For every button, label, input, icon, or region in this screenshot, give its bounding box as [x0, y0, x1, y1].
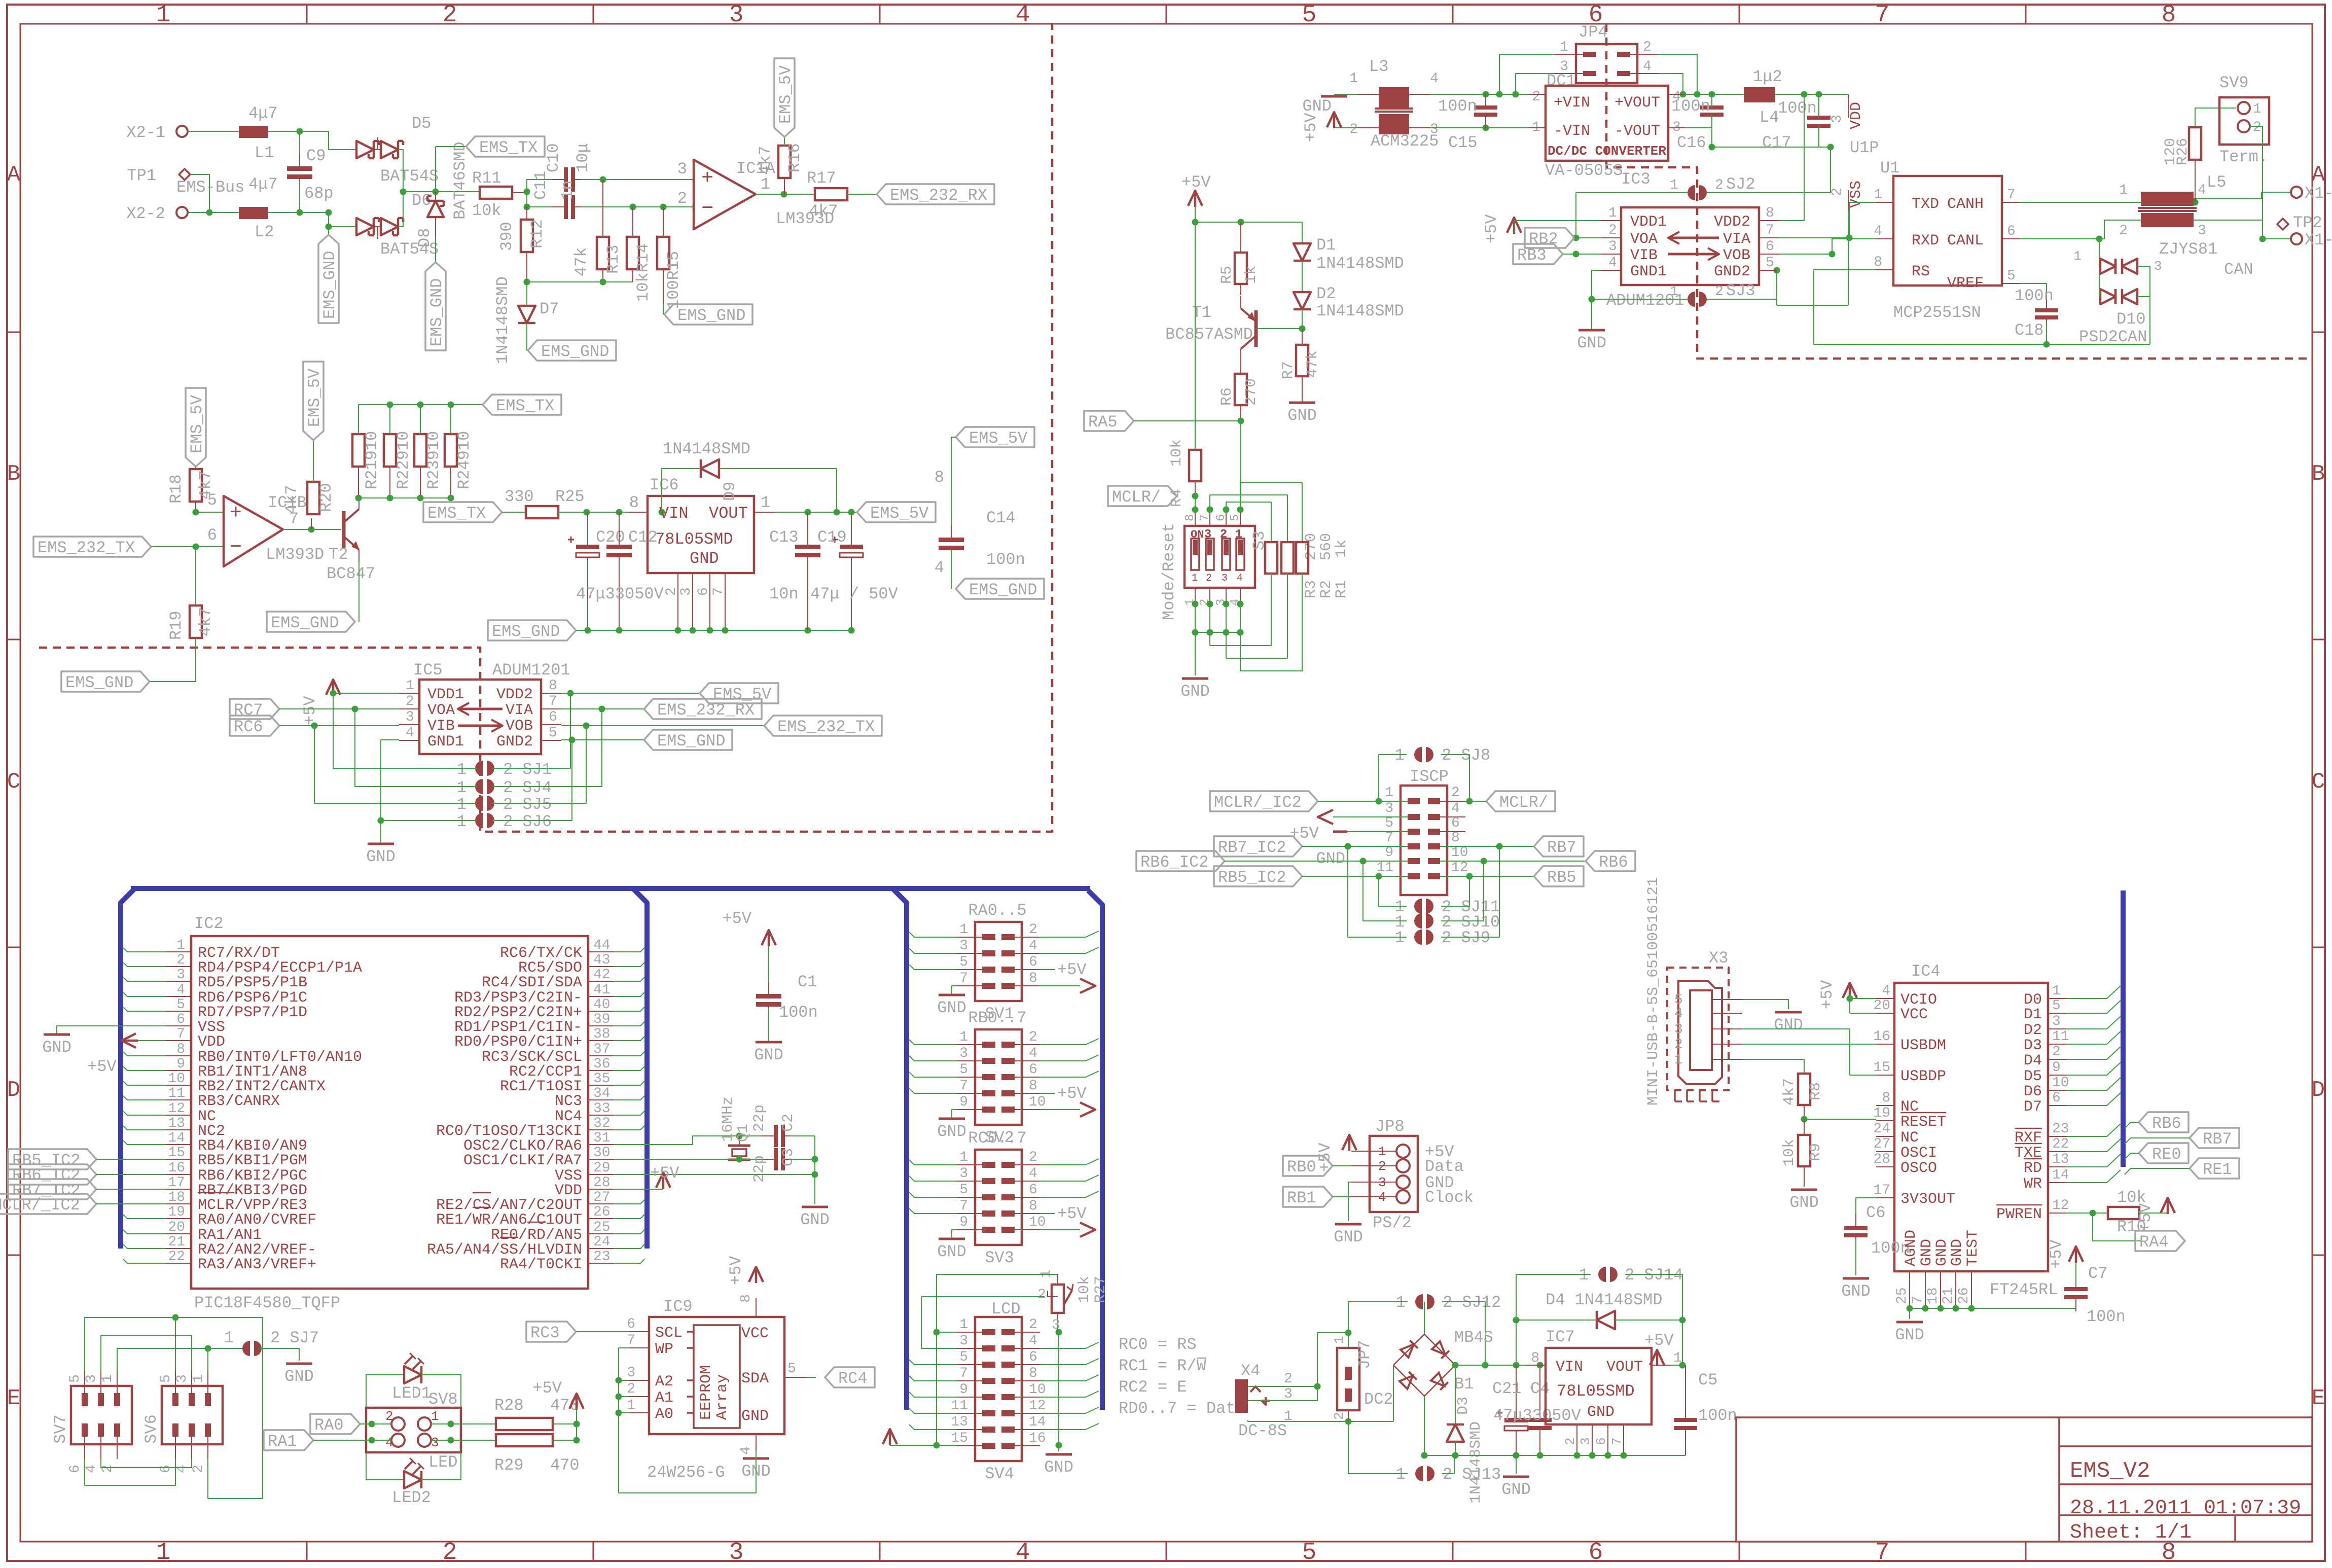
- svg-text:RB7: RB7: [2203, 1130, 2232, 1149]
- svg-text:7: 7: [959, 971, 968, 986]
- svg-text:330: 330: [505, 487, 534, 506]
- label flag MCLR/: [1108, 486, 1177, 506]
- svg-text:RD0/PSP0/C1IN+: RD0/PSP0/C1IN+: [454, 1034, 582, 1051]
- dc jack X4 DC-8S: [1235, 1379, 1248, 1413]
- svg-text:GND: GND: [42, 1038, 71, 1057]
- IC4 pin 17 3V3OUT: [1876, 1197, 1894, 1198]
- svg-text:7: 7: [1609, 1437, 1625, 1445]
- svg-text:35: 35: [593, 1071, 611, 1087]
- svg-text:EMS_TX: EMS_TX: [496, 397, 554, 415]
- svg-text:1: 1: [2073, 248, 2082, 264]
- svg-text:A1: A1: [655, 1389, 673, 1407]
- wire SJ8 pad2 down to pin2 net: [1441, 755, 1469, 801]
- svg-text:GND: GND: [1587, 1404, 1615, 1421]
- svg-text:GND1: GND1: [427, 733, 464, 751]
- ground at SV4 pin16: [1058, 1445, 1059, 1451]
- svg-text:IC3: IC3: [1621, 170, 1651, 189]
- svg-text:R9: R9: [1807, 1143, 1824, 1161]
- wire SJ14 pads: [1516, 1274, 1591, 1320]
- svg-text:6: 6: [158, 1465, 174, 1473]
- capacitor C2 22p: [762, 1135, 774, 1136]
- svg-text:3: 3: [627, 1365, 635, 1381]
- wire usb pin3 to USBDP: [1742, 1029, 1876, 1075]
- CAN transceiver U1 MCP2551SN: [1893, 176, 2002, 286]
- svg-text:6: 6: [67, 1465, 83, 1473]
- svg-text:3: 3: [729, 2, 744, 29]
- svg-text:RS: RS: [1912, 263, 1930, 280]
- svg-text:1: 1: [1608, 205, 1617, 221]
- svg-text:17: 17: [168, 1175, 185, 1191]
- LED1: [366, 1375, 404, 1408]
- svg-text:SV4: SV4: [985, 1465, 1014, 1483]
- diode D6 BAT54S dual schottky: [356, 218, 374, 235]
- svg-text:7: 7: [959, 1078, 968, 1094]
- wire +5V node down: [1682, 1320, 1683, 1365]
- svg-text:-VOUT: -VOUT: [1615, 123, 1660, 140]
- svg-text:WR: WR: [2024, 1175, 2042, 1193]
- svg-text:RB6: RB6: [1599, 853, 1628, 872]
- svg-text:EMS_232_RX: EMS_232_RX: [657, 701, 755, 720]
- svg-text:X4: X4: [1241, 1362, 1260, 1380]
- connector JP8 PS/2: [1370, 1136, 1418, 1212]
- op-amp IC1B LM393D: [224, 496, 283, 566]
- capacitor C4 330n: [1539, 1365, 1540, 1413]
- svg-text:4: 4: [738, 1446, 754, 1455]
- wire D5 output down to junction: [398, 150, 403, 192]
- svg-text:10: 10: [1029, 1382, 1046, 1398]
- wire SJ13 pad2: [1442, 1455, 1454, 1474]
- svg-text:5: 5: [2007, 268, 2016, 284]
- svg-text:1: 1: [2119, 183, 2128, 198]
- svg-text:10k: 10k: [472, 201, 501, 220]
- svg-text:2: 2: [1674, 1037, 1683, 1053]
- svg-text:3: 3: [959, 938, 968, 954]
- svg-text:100n: 100n: [2015, 287, 2054, 305]
- wire resistor bottom rail: [527, 281, 633, 282]
- svg-text:6: 6: [1029, 1182, 1037, 1198]
- wire X2-1 to L1: [188, 131, 239, 132]
- wire L2 to node: [268, 212, 329, 213]
- capacitor C7 100n: [2075, 1302, 2076, 1308]
- crystal circuit: wire OSC2 pin31 to C2 row: [614, 1136, 768, 1145]
- svg-text:2: 2: [1608, 223, 1617, 238]
- svg-text:2 SJ5: 2 SJ5: [503, 795, 552, 814]
- label flag EMS_5V above R16: [784, 137, 785, 146]
- svg-text:10n: 10n: [769, 585, 799, 603]
- svg-text:2: 2: [1532, 89, 1540, 105]
- isolation dashed boundary CAN region: [1606, 24, 2312, 359]
- svg-text:1: 1: [2052, 983, 2061, 999]
- svg-text:3V3OUT: 3V3OUT: [1900, 1191, 1955, 1208]
- power +5V at JP8 pin1: [1342, 1135, 1356, 1150]
- connector SV9 Term: [2219, 97, 2269, 145]
- svg-text:5: 5: [959, 954, 968, 970]
- op-amp IC1A LM393D: [694, 160, 756, 229]
- SV2 right wire: [1040, 1071, 1099, 1077]
- wire SJ3 right to GND2: [1706, 270, 1777, 299]
- resistor R21: [352, 434, 365, 467]
- IC2 pin 31 OSC2/CLKO/RA6: [588, 1144, 614, 1145]
- power +5V at IC4 VCIO: [1843, 983, 1857, 998]
- IC9 VCC pin8 to +5V: [756, 1298, 757, 1317]
- svg-text:5: 5: [176, 997, 185, 1013]
- svg-text:RB1: RB1: [1287, 1189, 1316, 1207]
- svg-text:3: 3: [959, 1333, 968, 1349]
- svg-text:6: 6: [1451, 815, 1460, 831]
- svg-text:R28: R28: [494, 1396, 524, 1415]
- svg-text:D: D: [2312, 1078, 2325, 1103]
- svg-text:+5V: +5V: [532, 1379, 562, 1398]
- svg-text:C12: C12: [628, 528, 658, 547]
- isolator ADUM1201 right instance: [1621, 207, 1759, 285]
- svg-text:100n: 100n: [779, 1003, 818, 1022]
- svg-text:5: 5: [959, 1182, 968, 1198]
- svg-text:LED1: LED1: [392, 1384, 431, 1403]
- svg-text:2 SJ9: 2 SJ9: [1442, 929, 1490, 947]
- IC2 pin 11 RB3/CANRX: [166, 1099, 191, 1100]
- svg-text:6: 6: [2007, 224, 2016, 239]
- svg-text:FT245RL: FT245RL: [1990, 1280, 2058, 1299]
- label flag EMS_232_RX at IC5: [644, 699, 762, 719]
- power +5V above T1 block: [1188, 191, 1202, 206]
- IC2 pin 39 RD1/PSP1/C1IN-: [588, 1025, 614, 1026]
- IC2 pin 14 RB4/KBI0/AN9: [166, 1144, 191, 1145]
- svg-text:6: 6: [1029, 1062, 1037, 1078]
- IC2 pin 30 OSC1/CLKI/RA7: [588, 1159, 614, 1160]
- svg-text:3: 3: [176, 967, 185, 983]
- wire IC6 VOUT to EMS_5V: [754, 512, 775, 513]
- svg-text:1: 1: [1396, 1293, 1406, 1312]
- svg-text:D2: D2: [2024, 1022, 2042, 1039]
- resistor R12: [526, 207, 527, 220]
- IC4 pin 4 VCIO: [1876, 998, 1894, 999]
- svg-text:RC6: RC6: [234, 718, 263, 736]
- connector pad X1-1: [2291, 187, 2302, 198]
- svg-text:2 SJ1: 2 SJ1: [503, 760, 552, 779]
- overline TXE on IC4: [2015, 1143, 2042, 1145]
- svg-text:R21910: R21910: [363, 431, 381, 489]
- IC2 pin 25 RE0/RD/AN5: [588, 1233, 614, 1234]
- svg-text:SJ3: SJ3: [1726, 281, 1755, 300]
- svg-text:EMS_5V: EMS_5V: [188, 395, 206, 453]
- wire RS to C18 rail: [1814, 270, 2150, 344]
- junction dots above S3: [1192, 507, 1199, 513]
- svg-text:5: 5: [158, 1374, 174, 1383]
- svg-text:R13: R13: [604, 244, 623, 274]
- svg-text:EMS_232_TX: EMS_232_TX: [38, 539, 135, 557]
- wire +5V to SJ1 pad1: [333, 693, 477, 768]
- svg-text:2: 2: [1715, 284, 1724, 300]
- IC4 pin 8 NC: [1876, 1105, 1894, 1106]
- svg-text:RB0..7: RB0..7: [968, 1009, 1026, 1027]
- wire IC2 right pin to bus: [614, 1259, 644, 1263]
- power pin U1P VSS: [1848, 190, 1849, 210]
- svg-text:1: 1: [457, 795, 467, 814]
- svg-text:4: 4: [1016, 2, 1030, 29]
- SV3 left wire: [909, 1176, 957, 1181]
- svg-text:2: 2: [1715, 177, 1724, 193]
- IC4 pin 22 TXE: [2048, 1151, 2066, 1152]
- wire IC2 right pin to bus: [614, 963, 644, 967]
- wire SJ2 left down to VOA net: [1576, 193, 1689, 238]
- IC2 pin 37 RC3/SCK/SCL: [588, 1055, 614, 1056]
- svg-text:5: 5: [549, 725, 557, 741]
- bus vertical for SV connectors left: [892, 888, 907, 1410]
- wire T2 collector to resistor rail: [358, 497, 360, 498]
- resistor R18: [195, 467, 196, 469]
- wire EMS_GND to SJ6 pad2: [492, 740, 572, 821]
- IC2 pin 8 RB0/INT0/LFT0/AN10: [166, 1055, 191, 1056]
- svg-text:GND: GND: [366, 847, 396, 866]
- svg-text:DC1: DC1: [1547, 72, 1576, 90]
- wire IC2 right pin to bus: [614, 992, 644, 996]
- svg-text:11: 11: [2052, 1029, 2069, 1045]
- wire SJ10 pads: [1363, 861, 1407, 921]
- svg-text:4: 4: [1643, 59, 1652, 75]
- wire T1 base to D2 R7 node: [1256, 328, 1302, 329]
- wire VOUT to +5V: [1671, 1365, 1685, 1366]
- wire GND1 to SJ6 pad1: [381, 820, 477, 821]
- svg-text:RB0: RB0: [1287, 1158, 1316, 1177]
- label flag EMS_GND below R15: [663, 304, 664, 314]
- svg-text:GND: GND: [937, 1122, 966, 1141]
- transistor T2 BC847: [342, 511, 346, 548]
- svg-text:X2-2: X2-2: [126, 204, 165, 223]
- svg-text:C5: C5: [1698, 1371, 1717, 1389]
- svg-text:+5V: +5V: [1057, 1204, 1087, 1223]
- wire IC2 left pin to bus: [123, 1066, 166, 1071]
- svg-text:EMS_GND: EMS_GND: [969, 581, 1037, 599]
- svg-text:5: 5: [1385, 815, 1393, 831]
- SV4 left wire: [909, 1360, 957, 1365]
- svg-text:+5V: +5V: [1057, 1084, 1087, 1103]
- ground symbol below IC5: [368, 843, 394, 845]
- label flag RA0: [310, 1414, 360, 1434]
- IC2 pin 1 RC7/RX/DT: [166, 951, 191, 952]
- svg-text:X1-1: X1-1: [2305, 184, 2332, 203]
- wire X4 to JP7 pin1: [1317, 1333, 1348, 1386]
- svg-text:DC-8S: DC-8S: [1238, 1421, 1287, 1440]
- svg-text:6: 6: [1214, 514, 1228, 521]
- wires SV6 SV7 loops top: [85, 1317, 175, 1371]
- svg-text:SV6: SV6: [142, 1414, 161, 1444]
- label flag RA5: [1084, 411, 1134, 431]
- IC9 pin 7 WP: [629, 1347, 649, 1348]
- wire TXD to VIA: [1849, 202, 1876, 238]
- wire GND2 pin5: [1759, 270, 1777, 271]
- svg-text:RB7_IC2: RB7_IC2: [1218, 838, 1286, 857]
- IC4 pin 25 AGND: [1909, 1271, 1910, 1308]
- svg-text:2: 2: [1029, 1317, 1037, 1333]
- svg-text:C4: C4: [1530, 1379, 1550, 1398]
- svg-text:9: 9: [959, 1382, 968, 1398]
- wire R8 R9 node to RESET: [1804, 1119, 1876, 1120]
- resistor R5 1k: [1240, 222, 1241, 253]
- svg-text:3: 3: [678, 587, 694, 596]
- svg-text:U1P: U1P: [1850, 138, 1879, 157]
- svg-text:R7: R7: [1280, 361, 1297, 379]
- svg-text:3: 3: [677, 160, 687, 179]
- svg-text:B: B: [7, 461, 20, 487]
- wire R27 wiper to SV4 row3: [1048, 1291, 1058, 1297]
- IC2 pin 13 NC2: [166, 1129, 191, 1130]
- svg-text:EMS_GND: EMS_GND: [427, 278, 446, 346]
- svg-text:5: 5: [1302, 1539, 1317, 1565]
- svg-text:TXD: TXD: [1912, 196, 1939, 213]
- svg-text:1: 1: [959, 1150, 968, 1165]
- svg-text:A0: A0: [655, 1406, 673, 1423]
- diode D8 BAT46SMD: [435, 192, 436, 200]
- IC4 pin 9 D5: [2048, 1075, 2066, 1076]
- svg-text:9: 9: [959, 1094, 968, 1110]
- capacitor C5 100n: [1685, 1365, 1686, 1413]
- IC2 pin 5 RD7/PSP7/P1D: [166, 1011, 191, 1012]
- label flag EMS_232_TX at IC5: [764, 716, 882, 736]
- IC2 pin 38 RD0/PSP0/C1IN+: [588, 1040, 614, 1041]
- svg-text:5: 5: [67, 1374, 83, 1383]
- IC2 pin 7 VDD: [166, 1040, 191, 1041]
- label flag EMS_GND below R19: [150, 638, 196, 682]
- svg-text:+5V: +5V: [2047, 1239, 2066, 1269]
- svg-text:13: 13: [168, 1116, 185, 1131]
- IC4 pin 1 D0: [2048, 998, 2066, 999]
- label flag EMS_5V above R20: [313, 440, 314, 482]
- svg-text:TP2: TP2: [2293, 213, 2322, 232]
- wire IC2 left pin to bus: [123, 1126, 166, 1130]
- svg-text:4: 4: [1029, 1166, 1037, 1182]
- wire EMS_232_TX to minus input: [151, 546, 224, 547]
- svg-text:68p: 68p: [304, 184, 334, 203]
- svg-text:R27: R27: [1092, 1276, 1109, 1303]
- svg-text:10k: 10k: [1076, 1276, 1093, 1303]
- IC9 pin 1 A0: [629, 1412, 649, 1413]
- power pin U1P VDD: [1848, 94, 1849, 118]
- IC4 pin 10 D6: [2048, 1090, 2066, 1091]
- ground below R7: [1289, 402, 1315, 404]
- svg-text:VOUT: VOUT: [1606, 1359, 1643, 1376]
- svg-text:8: 8: [738, 1294, 754, 1303]
- frame column ticks top: [306, 5, 308, 24]
- isolator IC5 ADUM1201: [419, 680, 541, 754]
- power +5V at IC5: [326, 680, 340, 695]
- svg-text:2: 2: [1029, 922, 1037, 938]
- svg-text:VDD: VDD: [1848, 102, 1865, 129]
- svg-text:EMS_GND: EMS_GND: [677, 306, 745, 325]
- wire RA5 node down to S3: [1240, 421, 1241, 510]
- svg-text:TP1: TP1: [127, 166, 156, 185]
- svg-text:2 SJ13: 2 SJ13: [1443, 1465, 1501, 1484]
- svg-text:BAT46SMD: BAT46SMD: [451, 141, 470, 220]
- wire CANH to L5: [2020, 202, 2141, 203]
- svg-text:GND: GND: [284, 1367, 314, 1386]
- svg-text:5: 5: [959, 1349, 968, 1365]
- svg-text:12: 12: [1451, 860, 1468, 876]
- wire crystal cap ground vertical: [814, 1136, 815, 1204]
- svg-text:47μ / 50V: 47μ / 50V: [810, 585, 899, 603]
- wire L1 to node: [268, 131, 329, 132]
- svg-text:7: 7: [1875, 2, 1890, 29]
- svg-text:GND: GND: [1044, 1458, 1073, 1477]
- svg-text:R12: R12: [528, 219, 547, 248]
- SV4 left wire: [909, 1408, 957, 1413]
- svg-text:4: 4: [1674, 1006, 1683, 1022]
- svg-text:10: 10: [2052, 1075, 2069, 1091]
- wires below S3: [1192, 601, 1199, 608]
- svg-text:28: 28: [1873, 1152, 1890, 1167]
- power +5V above C1: [762, 930, 776, 945]
- svg-text:L2: L2: [255, 223, 274, 241]
- wire PWREN node to RA4: [2093, 1213, 2142, 1241]
- resistor R29 470: [496, 1434, 553, 1446]
- svg-text:8: 8: [1029, 971, 1037, 986]
- ground below power rail: [1516, 1455, 1517, 1474]
- svg-text:RB5_IC2: RB5_IC2: [1218, 868, 1286, 887]
- diode D5 BAT54S dual schottky: [356, 141, 374, 158]
- jumper SJ6: [475, 813, 483, 828]
- svg-text:4: 4: [1016, 1539, 1030, 1565]
- voltage regulator IC7 78L05SMD: [1546, 1348, 1652, 1424]
- label flag EMS_5V at IC5: [700, 683, 778, 703]
- bridge rectifier B1 MB4S: [1393, 1334, 1455, 1396]
- IC2 pin 24 RA5/AN4/SS/HLVDIN: [588, 1248, 614, 1249]
- IC2 pin 35 RC1/T1OSI: [588, 1085, 614, 1086]
- svg-text:GND: GND: [937, 1242, 966, 1261]
- svg-text:1: 1: [1874, 187, 1882, 203]
- wire JP4 pin1 to +VIN rail: [1499, 54, 1555, 94]
- svg-text:7: 7: [627, 1333, 635, 1348]
- wire IC2 right pin to bus: [614, 1126, 644, 1130]
- inductor L4 1u2: [1744, 87, 1775, 102]
- IC9 pin 6 SCL: [629, 1331, 649, 1332]
- svg-text:RC1 = R/W: RC1 = R/W: [1119, 1357, 1207, 1375]
- wire C11 to opamp pin2: [582, 206, 694, 207]
- jumper SJ12: [1415, 1294, 1423, 1309]
- IC2 pin 20 RA1/AN1: [166, 1233, 191, 1234]
- jumper SJ3: [1688, 292, 1695, 307]
- SV3 pin10 arrow: [1040, 1229, 1080, 1230]
- svg-text:4: 4: [1608, 255, 1617, 271]
- resistor R28 470: [496, 1418, 553, 1430]
- svg-text:R25: R25: [555, 487, 585, 506]
- svg-text:14: 14: [1029, 1414, 1046, 1430]
- svg-text:30: 30: [593, 1145, 611, 1161]
- svg-text:3: 3: [2154, 259, 2162, 274]
- svg-text:10: 10: [168, 1071, 185, 1087]
- svg-text:1: 1: [176, 938, 185, 953]
- wire TP1 to X2-2 net: [190, 174, 209, 212]
- svg-text:D9: D9: [721, 482, 739, 501]
- resistor R25: [502, 512, 526, 513]
- svg-text:6: 6: [2052, 1090, 2061, 1106]
- power +5V above C7: [2069, 1246, 2083, 1262]
- svg-text:+VIN: +VIN: [1554, 94, 1590, 112]
- jumper SJ9: [1414, 930, 1422, 945]
- svg-text:14: 14: [168, 1130, 185, 1146]
- svg-text:EEPROM: EEPROM: [698, 1365, 715, 1420]
- SV4 right wire: [1040, 1391, 1099, 1397]
- svg-text:1: 1: [156, 1539, 171, 1565]
- svg-text:18: 18: [1925, 1287, 1941, 1304]
- svg-text:8: 8: [1029, 1366, 1037, 1381]
- svg-text:SV9: SV9: [2219, 74, 2249, 92]
- svg-text:T2: T2: [329, 545, 348, 564]
- svg-text:6: 6: [696, 587, 711, 596]
- overline PWREN on IC4: [1996, 1204, 2042, 1206]
- svg-text:33: 33: [593, 1101, 611, 1117]
- ground rail bottom power block: [1424, 1455, 1685, 1456]
- ground below right ADUM: [1578, 329, 1605, 332]
- label flag RB2: [1525, 228, 1574, 248]
